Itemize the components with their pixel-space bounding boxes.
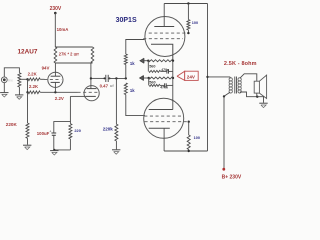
label 0.47 xyxy=(100,83,109,88)
pentode V1 grid g1 xyxy=(143,38,183,40)
ground (220K) xyxy=(23,145,31,149)
svg-text:100: 100 xyxy=(192,21,198,25)
label uf xyxy=(110,84,114,88)
capacitor 100uF xyxy=(49,130,56,150)
wire speaker return xyxy=(256,93,263,103)
node grid feed xyxy=(26,78,28,80)
ground (cathode RC) xyxy=(50,151,58,155)
svg-text:line: line xyxy=(8,78,13,82)
wire SRPP midpoint rail xyxy=(172,61,174,110)
node network1 right xyxy=(172,60,174,62)
label 1k (upper) xyxy=(130,61,135,66)
node screen feed xyxy=(187,2,189,4)
wire jack to ground xyxy=(3,83,5,93)
label 470n (network1) xyxy=(161,68,169,72)
wire plate to coupling cap xyxy=(91,77,105,79)
label 2.2K (lower) xyxy=(29,84,39,89)
wire cathode/grid rail xyxy=(40,91,77,93)
svg-text:560: 560 xyxy=(149,81,155,85)
svg-text:12AU7: 12AU7 xyxy=(18,48,38,55)
triode U1a envelope xyxy=(48,72,63,87)
resistor R 27K (right plate load) xyxy=(91,47,94,63)
ground (220k) xyxy=(112,150,120,154)
wire network1 branch xyxy=(147,61,149,72)
svg-text:220k: 220k xyxy=(103,127,114,132)
pentode V1 plate xyxy=(154,4,174,27)
node bottom rail junction xyxy=(188,150,190,152)
label 100uF xyxy=(37,131,50,136)
resistor 2.2K grid xyxy=(28,78,44,81)
wire arrow to node1 xyxy=(144,60,148,62)
node plate junction xyxy=(90,77,92,79)
resistor 1k (upper stopper) xyxy=(124,40,144,79)
wire top rail xyxy=(164,3,207,5)
resistor 560 (network2) xyxy=(149,84,160,86)
node B+ terminal xyxy=(222,168,225,171)
svg-text:2.5K - 8ohm: 2.5K - 8ohm xyxy=(224,61,257,67)
wire rail to transformer xyxy=(208,77,231,78)
svg-text:94V: 94V xyxy=(42,65,50,70)
svg-text:0.47: 0.47 xyxy=(100,83,109,88)
triode U1a grid xyxy=(44,78,61,80)
resistor 1k (lower stopper) xyxy=(124,83,145,116)
wire node down xyxy=(27,79,29,92)
wire plate-load top rail xyxy=(55,46,92,48)
label 230V xyxy=(50,6,62,12)
transformer T1 secondary xyxy=(238,78,241,93)
label 2.5K - 8ohm xyxy=(224,61,257,67)
node V2 g2 xyxy=(188,121,190,123)
svg-text:2.2K: 2.2K xyxy=(29,84,39,89)
label 2.2V xyxy=(55,96,64,101)
label 560 (network1) xyxy=(149,65,155,69)
label 10mA xyxy=(57,27,69,32)
svg-text:24V: 24V xyxy=(187,74,196,79)
svg-text:230V: 230V xyxy=(50,6,62,12)
svg-text:1k: 1k xyxy=(130,88,135,93)
triode U1b plate xyxy=(87,63,97,89)
wire B+ riser xyxy=(223,96,225,168)
wire cathode takeoff xyxy=(54,96,86,133)
pentode V2 plate xyxy=(149,109,173,111)
svg-text:100: 100 xyxy=(194,136,200,140)
label 560 (network2) xyxy=(149,81,155,85)
pentode V1 cathode xyxy=(151,44,173,60)
label 30P1S xyxy=(116,17,137,24)
pentode V2 grid g1 xyxy=(144,115,183,117)
wire right rail xyxy=(207,4,209,152)
speaker LS1 xyxy=(254,75,266,98)
node 220K tap xyxy=(26,91,28,93)
ground (pot) xyxy=(15,95,23,99)
wire secondary bottom xyxy=(240,92,257,97)
label 220k xyxy=(103,127,114,132)
node 220k tap xyxy=(115,77,117,79)
node transformer feed xyxy=(206,76,208,78)
resistor 2.2K feedback xyxy=(28,91,40,94)
pentode V1 screen g2 xyxy=(149,32,189,34)
resistor network2 top xyxy=(149,77,175,79)
svg-text:100uF: 100uF xyxy=(37,131,50,136)
label 27K * 2 value xyxy=(59,52,79,57)
resistor 220K (input leak) xyxy=(26,92,29,145)
resistor 100 (V2 screen) xyxy=(187,122,190,151)
resistor 560 (network1) xyxy=(149,70,161,72)
node network2 left xyxy=(148,77,150,79)
wire network2 branch xyxy=(148,78,150,85)
arrow V2 grid xyxy=(140,76,144,81)
wire plate-load bottom rail xyxy=(55,62,92,64)
triode U1a plate xyxy=(51,63,61,76)
ground (input jack) xyxy=(0,93,8,97)
wire input rail xyxy=(4,68,19,77)
svg-text:2.2V: 2.2V xyxy=(55,96,64,101)
pentode V2 envelope xyxy=(144,98,184,138)
svg-text:470n: 470n xyxy=(160,85,168,89)
label B+ 230V xyxy=(222,174,242,180)
wire bottom rail xyxy=(164,150,207,152)
svg-text:220K: 220K xyxy=(6,122,18,127)
resistor network1 top xyxy=(148,60,173,62)
wire RC bottom xyxy=(53,149,70,151)
triode U1b cathode xyxy=(86,95,96,97)
pentode V1 envelope xyxy=(145,17,185,57)
wire secondary top xyxy=(240,74,257,81)
wire B+ drop to plate-load rail xyxy=(54,13,56,47)
triode U1b grid xyxy=(78,91,99,93)
potentiometer (input level) xyxy=(18,73,21,95)
triode U1a cathode xyxy=(51,82,60,92)
resistor 220k (grid leak) xyxy=(115,78,118,149)
pentode V2 cathode xyxy=(149,128,170,151)
node network1 left xyxy=(147,60,149,62)
label 100 (V1) xyxy=(192,21,198,25)
label 220K xyxy=(6,122,18,127)
svg-text:30P1S: 30P1S xyxy=(116,17,137,24)
node 230V supply terminal xyxy=(54,12,57,15)
svg-text:2.2K: 2.2K xyxy=(28,72,38,77)
capacitor 0.47uF xyxy=(104,75,111,82)
pentode V2 screen g2 xyxy=(145,121,189,123)
wire cap to grid node xyxy=(108,77,126,79)
resistor R 27K (left plate load) xyxy=(54,47,57,63)
svg-text:B+ 230V: B+ 230V xyxy=(222,174,242,180)
svg-text:220: 220 xyxy=(74,128,81,133)
annotation 24V callout xyxy=(177,71,198,80)
wire arrow to node2 xyxy=(144,77,149,79)
ground (speaker) xyxy=(259,103,267,107)
svg-text:470n: 470n xyxy=(161,68,169,72)
svg-text:10mA: 10mA xyxy=(57,27,69,32)
transformer T1 primary xyxy=(229,78,232,93)
triode U1b envelope xyxy=(84,86,99,101)
resistor 100 (V1 screen) xyxy=(187,4,190,34)
input jack J1 xyxy=(1,77,13,83)
label 100 (V2) xyxy=(194,136,200,140)
label 94V xyxy=(42,65,50,70)
label 220 xyxy=(74,128,81,133)
wire primary to B+ xyxy=(223,92,230,97)
svg-text:27K * 2 шт: 27K * 2 шт xyxy=(59,52,79,57)
svg-text:+: + xyxy=(49,130,51,134)
label 2.2K (upper) xyxy=(28,72,38,77)
node grid stopper junction xyxy=(125,77,127,79)
node V1 g2 xyxy=(187,32,189,34)
label 1k (lower) xyxy=(130,88,135,93)
svg-text:1k: 1k xyxy=(130,61,135,66)
resistor 220 cathode xyxy=(69,122,72,150)
label 470n (network2) xyxy=(160,85,168,89)
svg-text:560: 560 xyxy=(149,65,155,69)
wire pot wiper to node xyxy=(19,78,27,80)
capacitor 470n (network2) xyxy=(160,83,173,87)
label 12AU7 xyxy=(18,48,38,55)
arrow V1 grid xyxy=(140,58,144,63)
transformer T1 core xyxy=(235,77,237,94)
node triode1 cathode junction xyxy=(54,91,56,93)
capacitor 470n (network1) xyxy=(161,69,174,73)
